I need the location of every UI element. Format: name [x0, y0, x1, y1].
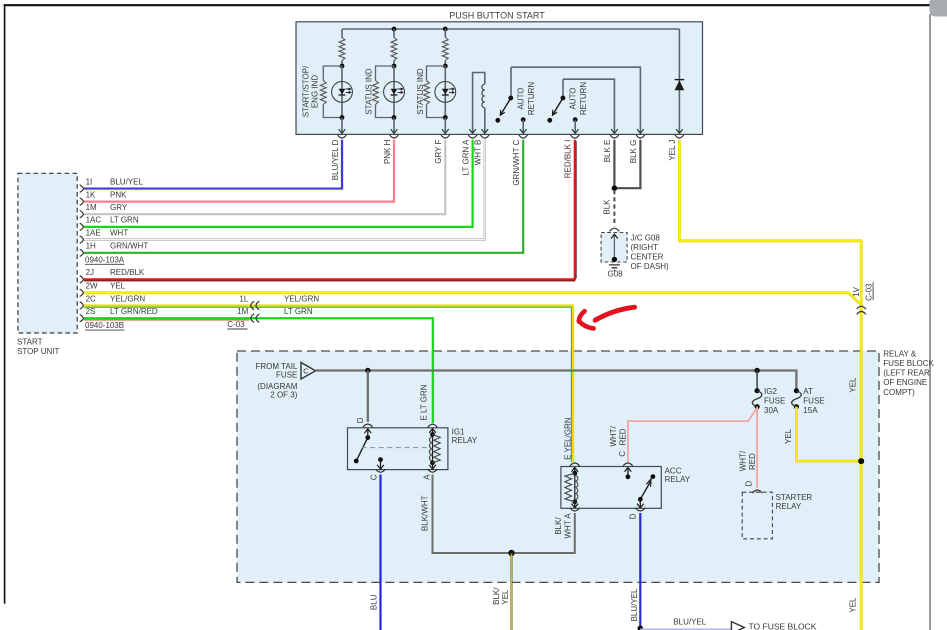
node rail-R2: [392, 27, 397, 32]
connector pin E: [610, 135, 619, 139]
svg-text:RELAY: RELAY: [665, 475, 691, 484]
connector pin D: [338, 135, 347, 139]
fuse AT 15A: [794, 388, 799, 393]
svg-text:1M: 1M: [237, 307, 248, 316]
svg-text:GRY: GRY: [110, 203, 128, 212]
wire BLK/WHT from ACC A: [514, 513, 575, 553]
svg-text:1L: 1L: [239, 294, 248, 303]
svg-text:PUSH BUTTON START: PUSH BUTTON START: [449, 10, 545, 20]
node IND2 top: [392, 64, 397, 69]
connector ACC pin E: [570, 463, 580, 466]
svg-text:YEL/GRN: YEL/GRN: [284, 294, 319, 303]
svg-text:YEL J: YEL J: [668, 140, 677, 161]
switch SW2 AUTO RETURN: [562, 79, 564, 98]
svg-text:WHT A: WHT A: [563, 513, 572, 539]
wire G08 internal: [613, 235, 615, 259]
connector unit pin 1M: [80, 211, 84, 218]
svg-text:1K: 1K: [86, 190, 96, 199]
svg-text:15A: 15A: [803, 406, 818, 415]
wire BLU/YEL to fuse block: [640, 628, 731, 630]
svg-text:30A: 30A: [764, 406, 779, 415]
svg-text:D: D: [356, 417, 365, 423]
connector unit pin 2C: [80, 302, 84, 309]
wire top supply rail: [342, 28, 679, 30]
wire frame left border: [4, 4, 6, 604]
svg-text:FROM TAIL: FROM TAIL: [255, 362, 297, 371]
svg-text:E YEL/GRN: E YEL/GRN: [563, 417, 572, 460]
resistor parallel IND1: [323, 66, 342, 118]
svg-text:C: C: [618, 451, 627, 457]
node BLK junction: [508, 550, 514, 556]
svg-text:RELAY &: RELAY &: [883, 349, 917, 358]
resistor series IND2: [393, 29, 395, 38]
connector pin F: [441, 135, 450, 139]
svg-text:G08: G08: [608, 270, 624, 279]
svg-text:RETURN: RETURN: [579, 82, 588, 116]
wire pin I stub: [573, 117, 578, 122]
wire IND1 to pin: [341, 118, 343, 134]
relay ACC box: [561, 467, 661, 509]
LED IND2: [393, 66, 395, 118]
connector 1L: [251, 301, 254, 309]
connector starter pin D: [753, 490, 763, 493]
svg-text:START/STOP/: START/STOP/: [302, 65, 311, 117]
svg-text:1V: 1V: [852, 286, 861, 296]
connector pin J: [675, 135, 684, 139]
svg-text:YEL: YEL: [848, 377, 857, 393]
wire WHT/RED IG2 to ACC C: [756, 407, 758, 488]
svg-text:LT GRN A: LT GRN A: [461, 139, 470, 175]
wire pin A loop: [473, 73, 485, 134]
svg-text:PNK: PNK: [110, 190, 127, 199]
svg-text:GRY F: GRY F: [434, 139, 443, 163]
svg-text:BLK/WHT: BLK/WHT: [420, 495, 429, 531]
svg-text:YEL: YEL: [784, 428, 793, 444]
wire IG1 pin C stub: [378, 457, 383, 462]
wire pin C stub: [521, 117, 526, 122]
wire BLU/YEL D to 1I: [84, 140, 342, 189]
svg-text:WHT/: WHT/: [609, 425, 618, 446]
start stop unit box: [18, 173, 77, 333]
wire IND3 to pin: [444, 118, 446, 134]
symbol to-arrow: [731, 622, 744, 630]
svg-text:C: C: [303, 368, 308, 375]
svg-text:START: START: [17, 338, 43, 347]
svg-text:COMPT): COMPT): [883, 388, 915, 397]
svg-text:IG2: IG2: [764, 387, 777, 396]
node IND1 top: [340, 64, 345, 69]
wire BLK E: [613, 140, 615, 188]
svg-text:RED: RED: [748, 453, 757, 470]
wire from tail fuse: [316, 371, 797, 389]
svg-text:0940-103A: 0940-103A: [85, 255, 125, 264]
node IND2 bottom: [392, 115, 397, 120]
fuse IG2 30A: [755, 388, 760, 393]
wire switch2 rail to pin E: [563, 79, 614, 133]
svg-text:0940-103B: 0940-103B: [85, 321, 124, 330]
connector pin I: [570, 135, 579, 139]
svg-text:AUTO: AUTO: [516, 87, 525, 109]
svg-text:YEL: YEL: [501, 589, 510, 605]
svg-text:C-03: C-03: [865, 283, 874, 301]
wire PNK H to 1K: [84, 140, 394, 202]
switch ACC blade: [651, 474, 656, 479]
wire BLK/WHT from IG1 A: [433, 475, 510, 554]
svg-text:LT GRN/RED: LT GRN/RED: [110, 307, 158, 316]
resistor series IND1: [341, 29, 343, 38]
svg-text:GRN/WHT: GRN/WHT: [110, 242, 148, 251]
connector pin A: [468, 135, 477, 139]
svg-text:1H: 1H: [86, 242, 96, 251]
wire BLK/YEL down: [510, 553, 512, 630]
connector pin B: [480, 135, 489, 139]
wire BLK dashed to J/C G08: [613, 190, 615, 226]
svg-text:BLK: BLK: [602, 199, 611, 215]
svg-text:STARTER: STARTER: [776, 493, 813, 502]
svg-text:STATUS IND: STATUS IND: [416, 68, 425, 115]
node rail-R3: [443, 27, 448, 32]
connector unit pin 1AC: [80, 223, 84, 230]
connector unit pin 2S: [80, 315, 84, 322]
svg-text:RETURN: RETURN: [527, 82, 536, 116]
svg-text:2 OF 3): 2 OF 3): [270, 391, 297, 400]
svg-text:D: D: [744, 480, 753, 486]
svg-text:1M: 1M: [86, 203, 97, 212]
wire YEL 2W: [84, 293, 861, 305]
svg-text:2J: 2J: [86, 268, 94, 277]
svg-text:RELAY: RELAY: [452, 436, 478, 445]
node IG1 pivot: [365, 435, 370, 440]
switch IG1 blade: [356, 438, 368, 461]
connector unit pin 2J: [80, 276, 84, 283]
svg-text:D: D: [628, 513, 637, 519]
svg-text:BLK/: BLK/: [492, 587, 501, 605]
svg-text:WHT/: WHT/: [739, 450, 748, 471]
wire BLK G: [614, 140, 640, 188]
connector C-03 (1V): [857, 306, 866, 309]
svg-text:YEL: YEL: [110, 282, 126, 291]
svg-text:RED/BLK I: RED/BLK I: [564, 140, 573, 179]
connector unit pin 1I: [80, 185, 84, 192]
wire pin B: [484, 108, 486, 134]
svg-text:(DIAGRAM: (DIAGRAM: [257, 382, 297, 391]
svg-text:BLU/YEL D: BLU/YEL D: [331, 139, 340, 180]
resistor parallel IND3: [427, 66, 446, 118]
node BLU/YEL bottom: [638, 626, 644, 630]
svg-text:J/C G08: J/C G08: [631, 234, 661, 243]
wire BLU from IG1 C: [379, 475, 381, 630]
wire WHT B to 1AE: [84, 140, 485, 240]
LED IND1: [341, 66, 343, 118]
svg-text:RED/BLK: RED/BLK: [110, 268, 145, 277]
svg-text:C-03: C-03: [227, 320, 245, 329]
svg-text:ENG IND: ENG IND: [311, 75, 320, 109]
junction connector J/C G08 box: [601, 233, 627, 263]
svg-text:(RIGHT: (RIGHT: [631, 243, 659, 252]
svg-text:C: C: [370, 474, 379, 480]
svg-text:BLU/YEL: BLU/YEL: [110, 177, 143, 186]
svg-text:2S: 2S: [86, 307, 96, 316]
svg-text:GRN/WHT C: GRN/WHT C: [512, 139, 521, 185]
node IND3 bottom: [443, 115, 448, 120]
connector pin G: [636, 135, 645, 139]
wire frame right border: [929, 14, 931, 630]
node YEL junction: [858, 458, 864, 464]
annotation red arrow: [595, 307, 634, 320]
relay STARTER box: [742, 492, 772, 539]
wire GRN/WHT C to 1H: [84, 140, 523, 253]
svg-text:E LT GRN: E LT GRN: [420, 384, 429, 420]
ground G08: [609, 265, 620, 271]
diode D1: [675, 80, 685, 90]
svg-text:FUSE: FUSE: [764, 397, 785, 406]
wire YEL AT fuse to main: [796, 407, 861, 461]
connector unit pin 1K: [80, 198, 84, 205]
LED IND3: [444, 66, 446, 118]
resistor series IND3: [444, 29, 446, 38]
svg-text:A: A: [422, 474, 431, 480]
wire frame top border: [4, 4, 930, 6]
svg-text:BLU/YEL: BLU/YEL: [673, 617, 706, 626]
connector pin C: [519, 135, 528, 139]
connector ACC pin C: [623, 463, 633, 466]
svg-text:LT GRN: LT GRN: [284, 307, 313, 316]
wire switch1 rail to pin G: [511, 67, 640, 133]
svg-text:BLK/: BLK/: [554, 517, 563, 535]
relay and fuse block box: [237, 351, 879, 582]
svg-text:STOP UNIT: STOP UNIT: [17, 347, 59, 356]
svg-text:WHT B: WHT B: [474, 140, 483, 166]
node tail-IG1: [365, 368, 370, 373]
svg-text:TO FUSE BLOCK: TO FUSE BLOCK: [749, 621, 817, 630]
connector unit pin 1AE: [80, 236, 84, 243]
svg-text:BLU: BLU: [369, 594, 378, 610]
svg-text:BLK G: BLK G: [629, 140, 638, 164]
wire to IG2 fuse: [756, 371, 758, 389]
connector unit pin 1H: [80, 249, 84, 256]
switch SW1 AUTO RETURN: [510, 67, 512, 98]
svg-text:RELAY: RELAY: [776, 502, 802, 511]
wire IND2 to pin: [393, 118, 395, 134]
relay IG1 box: [348, 428, 448, 470]
svg-text:OF DASH): OF DASH): [631, 262, 670, 271]
connector pin H: [390, 135, 399, 139]
svg-text:ACC: ACC: [665, 466, 682, 475]
wire RED/BLK I to 2J: [84, 140, 575, 280]
push button start box: [296, 22, 703, 135]
connector G08: [610, 228, 620, 231]
svg-text:AUTO: AUTO: [568, 87, 577, 109]
svg-text:2W: 2W: [86, 282, 98, 291]
svg-text:YEL/GRN: YEL/GRN: [110, 294, 145, 303]
wire IG1 pin E (LT GRN enters): [428, 424, 438, 427]
resistor parallel IND2: [376, 66, 395, 118]
node IND3 top: [443, 64, 448, 69]
connector unit pin 2W: [80, 289, 84, 296]
connector 1M: [251, 314, 254, 322]
svg-text:1AC: 1AC: [86, 216, 102, 225]
svg-text:RED: RED: [618, 428, 627, 445]
wire IG1 pin D: [367, 371, 369, 422]
svg-text:(LEFT REAR: (LEFT REAR: [883, 369, 930, 378]
wire YEL J to C-03 and down: [679, 140, 861, 630]
svg-text:LT GRN: LT GRN: [110, 216, 139, 225]
svg-text:CENTER: CENTER: [631, 253, 664, 262]
wire ACC pin A stub: [574, 502, 576, 508]
svg-text:1I: 1I: [86, 177, 93, 186]
wire YEL/GRN 2C to ACC relay: [84, 306, 573, 462]
svg-text:1AE: 1AE: [86, 228, 101, 237]
mech link IG1: [362, 447, 428, 449]
svg-text:FUSE: FUSE: [803, 397, 824, 406]
wire LT GRN/RED 2S to IG1 relay: [84, 318, 433, 423]
inductor coil L1: [482, 84, 485, 108]
node IND1 bottom: [340, 115, 345, 120]
svg-text:BLU/YEL: BLU/YEL: [630, 588, 639, 621]
relay coil ACC: [572, 471, 577, 476]
svg-text:FUSE BLOCK: FUSE BLOCK: [883, 359, 934, 368]
UI corner blob: [930, 0, 947, 17]
wire LT GRN A to 1AC: [84, 140, 473, 227]
wire GRY F to 1M: [84, 140, 446, 214]
svg-text:AT: AT: [803, 387, 813, 396]
svg-text:STATUS IND: STATUS IND: [364, 68, 373, 115]
wire BLU/YEL from ACC D: [639, 513, 641, 628]
svg-text:2C: 2C: [86, 294, 96, 303]
wire IG1 pin A stub: [432, 463, 434, 469]
relay coil IG1: [430, 432, 435, 437]
svg-text:FUSE: FUSE: [276, 371, 297, 380]
node BLK junction: [612, 185, 618, 191]
wire pin J: [678, 29, 680, 134]
svg-text:WHT: WHT: [110, 228, 128, 237]
svg-text:YEL: YEL: [848, 597, 857, 613]
svg-text:OF ENGINE: OF ENGINE: [883, 378, 927, 387]
symbol from-arrow C: [301, 363, 316, 380]
node G08: [612, 257, 617, 262]
node tail-IG2: [754, 368, 759, 373]
wire ACC pin D stub: [639, 499, 641, 507]
svg-text:PNK H: PNK H: [383, 139, 392, 164]
svg-text:BLK E: BLK E: [603, 140, 612, 163]
